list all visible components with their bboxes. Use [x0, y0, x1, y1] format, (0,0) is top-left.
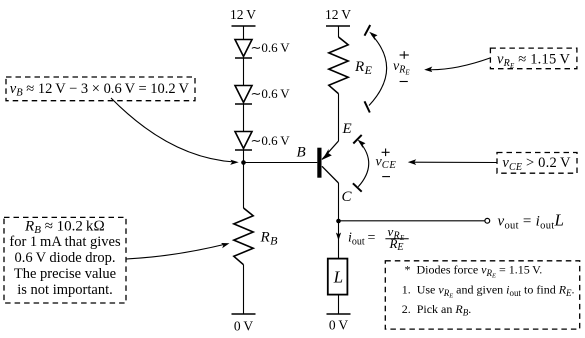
- svg-text:12 V: 12 V: [325, 7, 351, 22]
- svg-text:∼0.6 V: ∼0.6 V: [251, 40, 291, 55]
- resistor RB: [234, 208, 253, 265]
- svg-text:2. Pick an RB.: 2. Pick an RB.: [402, 302, 472, 317]
- supply bar right: [326, 25, 350, 27]
- svg-text:L: L: [333, 268, 343, 287]
- wire collector to output node: [338, 183, 340, 221]
- iout current arrowhead: [336, 233, 341, 241]
- ground bar left: [232, 313, 256, 315]
- base bar: [317, 148, 321, 178]
- ground bar right: [327, 313, 351, 315]
- label C: [342, 189, 353, 205]
- emitter arrowhead (PNP, points into base): [322, 149, 332, 160]
- vCE measurement tick top (at E): [353, 135, 361, 144]
- supply label 12V left: [230, 7, 256, 22]
- label RE: [354, 59, 373, 77]
- wire output node to load, with iout arrow: [338, 221, 340, 259]
- svg-text:B: B: [297, 145, 306, 161]
- diode D1: [235, 40, 252, 59]
- wire D1 to D2: [243, 58, 245, 86]
- vCE arc arrow: [358, 140, 369, 187]
- node B junction dot: [241, 160, 246, 165]
- wire supply to RE: [338, 26, 340, 37]
- label B: [297, 145, 306, 161]
- label vout = ioutL: [498, 211, 565, 232]
- collector diagonal: [322, 166, 339, 183]
- arrow vCE box to vCE: [408, 159, 497, 165]
- label iout = vRE/RE: [348, 224, 409, 253]
- wire load to ground: [338, 295, 340, 314]
- svg-text:The precise value: The precise value: [14, 266, 116, 282]
- label ~0.6V D2: [251, 86, 291, 101]
- label ~0.6V D3: [251, 133, 291, 148]
- wire D2 to D3: [243, 104, 245, 132]
- transistor Q1 (PNP): [317, 141, 338, 183]
- diode D3: [235, 132, 252, 151]
- vCE polarity labels: [376, 149, 397, 177]
- ground label 0V right: [329, 318, 348, 333]
- vRE measurement tick top: [365, 25, 371, 36]
- open terminal circle: [485, 218, 490, 223]
- vRE arc arrow: [369, 32, 387, 106]
- label RB: [260, 230, 279, 248]
- svg-text:12 V: 12 V: [230, 7, 256, 22]
- annotation box RB: [4, 217, 126, 303]
- supply bar left: [232, 25, 256, 27]
- svg-text:0.6 V diode drop.: 0.6 V diode drop.: [15, 250, 116, 266]
- annotation box vB: [6, 77, 195, 101]
- svg-text:0 V: 0 V: [234, 319, 253, 334]
- wire node B to transistor base: [244, 162, 318, 164]
- svg-text:C: C: [342, 189, 353, 205]
- output node dot: [336, 219, 341, 224]
- vCE measurement tick bottom (at C): [353, 183, 362, 191]
- arrow RB box to RB: [126, 243, 230, 259]
- svg-text:for 1 mA that gives: for 1 mA that gives: [9, 234, 121, 250]
- emitter diagonal: [322, 141, 339, 160]
- svg-text:∼0.6 V: ∼0.6 V: [251, 86, 291, 101]
- wire node B down to RB: [243, 163, 245, 209]
- svg-text:E: E: [342, 121, 352, 137]
- vRE polarity labels: [393, 51, 410, 81]
- svg-text:vB ≈ 12 V − 3 × 0.6 V = 10.2 V: vB ≈ 12 V − 3 × 0.6 V = 10.2 V: [10, 81, 190, 99]
- supply label 12V right: [325, 7, 351, 22]
- ground label 0V left: [234, 319, 253, 334]
- label L: [333, 268, 343, 287]
- load box L: [328, 259, 348, 295]
- vRE measurement tick bottom: [365, 101, 370, 112]
- resistor RE: [329, 37, 348, 94]
- wire output node to terminal: [339, 220, 485, 222]
- diode D2: [235, 86, 252, 105]
- label ~0.6V D1: [251, 40, 291, 55]
- annotation box vCE value: [497, 153, 577, 174]
- wire supply to D1: [243, 26, 245, 40]
- notes box: [385, 261, 579, 329]
- annotation box vRE value: [490, 48, 577, 70]
- svg-text:∼0.6 V: ∼0.6 V: [251, 133, 291, 148]
- svg-text:0 V: 0 V: [329, 318, 348, 333]
- arrow vRE box to vRE: [424, 58, 490, 72]
- arrow vB box to node B: [111, 98, 239, 165]
- wire RB to ground: [243, 265, 245, 314]
- wire D3 to node B: [243, 150, 245, 163]
- label E: [342, 121, 352, 137]
- wire RE to emitter: [338, 94, 340, 141]
- svg-text:is not important.: is not important.: [17, 282, 112, 298]
